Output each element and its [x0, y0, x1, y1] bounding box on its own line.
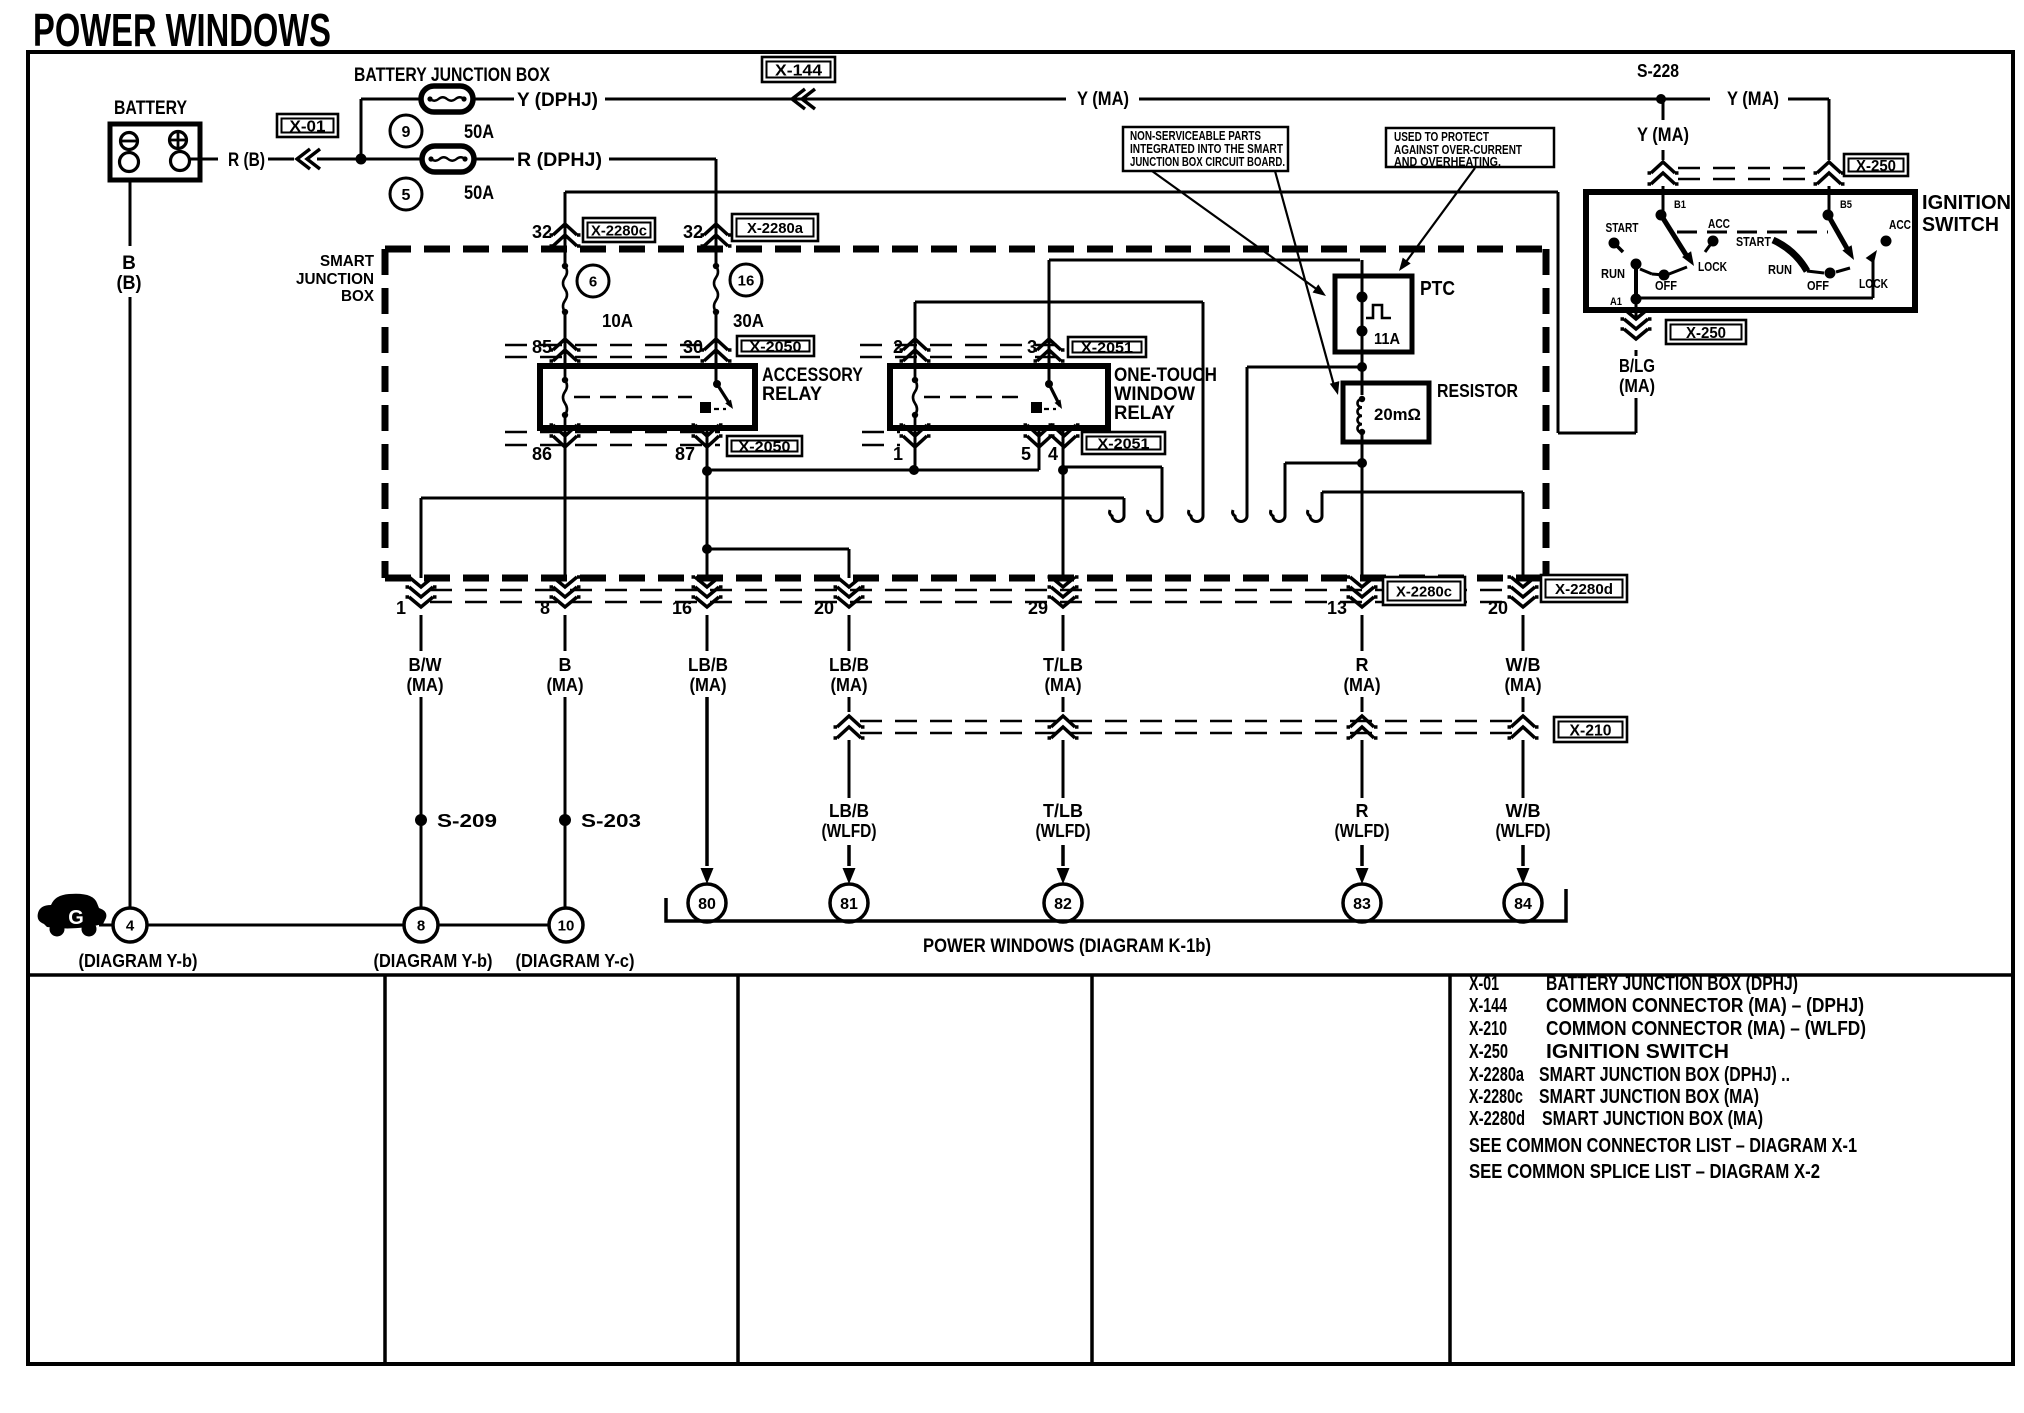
svg-text:X-144: X-144	[1469, 995, 1508, 1017]
svg-text:6: 6	[589, 273, 597, 290]
svg-text:X-250: X-250	[1686, 325, 1726, 342]
svg-text:13: 13	[1327, 598, 1347, 618]
svg-text:R: R	[1356, 801, 1369, 821]
svg-text:10A: 10A	[602, 311, 633, 331]
svg-text:(MA): (MA)	[407, 675, 444, 695]
svg-text:X-2280d: X-2280d	[1555, 581, 1613, 598]
svg-text:3: 3	[1027, 337, 1037, 357]
svg-text:Y (MA): Y (MA)	[1727, 89, 1779, 110]
svg-text:(WLFD): (WLFD)	[822, 821, 877, 841]
svg-text:RUN: RUN	[1601, 266, 1625, 281]
svg-text:32: 32	[683, 222, 703, 242]
svg-text:JUNCTION BOX CIRCUIT BOARD.: JUNCTION BOX CIRCUIT BOARD.	[1130, 155, 1285, 169]
svg-text:(DIAGRAM Y-b): (DIAGRAM Y-b)	[374, 951, 493, 971]
svg-text:4: 4	[126, 917, 135, 934]
svg-text:X-144: X-144	[775, 62, 822, 79]
svg-text:B/LG: B/LG	[1619, 356, 1655, 376]
svg-text:(MA): (MA)	[1344, 675, 1381, 695]
svg-text:COMMON CONNECTOR (MA) – (WLFD): COMMON CONNECTOR (MA) – (WLFD)	[1546, 1018, 1866, 1040]
svg-text:86: 86	[532, 444, 552, 464]
svg-text:87: 87	[675, 444, 695, 464]
svg-text:POWER WINDOWS (DIAGRAM K-1b): POWER WINDOWS (DIAGRAM K-1b)	[923, 936, 1211, 957]
svg-text:84: 84	[1514, 896, 1532, 913]
svg-text:LB/B: LB/B	[688, 655, 728, 675]
svg-text:8: 8	[540, 598, 550, 618]
svg-text:1: 1	[396, 598, 406, 618]
svg-text:OFF: OFF	[1655, 278, 1677, 293]
svg-text:50A: 50A	[464, 183, 494, 204]
svg-text:JUNCTION: JUNCTION	[296, 271, 374, 288]
svg-text:81: 81	[840, 896, 858, 913]
svg-text:SMART JUNCTION BOX (DPHJ) ..: SMART JUNCTION BOX (DPHJ) ..	[1539, 1064, 1790, 1086]
svg-text:X-2280c: X-2280c	[1396, 583, 1452, 600]
svg-text:82: 82	[1054, 896, 1072, 913]
svg-text:X-210: X-210	[1469, 1018, 1507, 1040]
svg-text:X-2280d: X-2280d	[1469, 1108, 1525, 1130]
svg-text:11A: 11A	[1374, 331, 1400, 348]
svg-text:COMMON CONNECTOR (MA) – (DPHJ): COMMON CONNECTOR (MA) – (DPHJ)	[1546, 995, 1864, 1017]
svg-text:83: 83	[1353, 896, 1371, 913]
svg-text:LB/B: LB/B	[829, 801, 869, 821]
svg-text:G: G	[68, 907, 84, 929]
svg-text:8: 8	[417, 917, 425, 934]
svg-text:X-2051: X-2051	[1098, 435, 1150, 452]
svg-text:(MA): (MA)	[1505, 675, 1542, 695]
svg-text:RELAY: RELAY	[762, 384, 822, 405]
svg-text:(MA): (MA)	[1619, 376, 1655, 396]
svg-text:SMART: SMART	[320, 253, 374, 270]
svg-text:2: 2	[893, 337, 903, 357]
svg-text:WINDOW: WINDOW	[1114, 384, 1195, 405]
svg-text:X-250: X-250	[1856, 158, 1896, 175]
svg-text:50A: 50A	[464, 122, 494, 143]
svg-text:R (DPHJ): R (DPHJ)	[517, 150, 602, 171]
svg-text:X-01: X-01	[1469, 973, 1499, 995]
svg-text:20: 20	[814, 598, 834, 618]
svg-text:ACC: ACC	[1708, 216, 1730, 231]
svg-text:(DIAGRAM Y-b): (DIAGRAM Y-b)	[79, 951, 198, 971]
svg-text:IGNITION SWITCH: IGNITION SWITCH	[1546, 1041, 1729, 1063]
svg-text:SEE COMMON CONNECTOR LIST – D: SEE COMMON CONNECTOR LIST – DIAGRAM X-1	[1469, 1135, 1857, 1157]
svg-text:X-2280a: X-2280a	[747, 220, 804, 237]
svg-text:BOX: BOX	[341, 288, 374, 305]
svg-text:(MA): (MA)	[547, 675, 584, 695]
svg-text:BATTERY JUNCTION BOX: BATTERY JUNCTION BOX	[354, 65, 550, 86]
svg-text:W/B: W/B	[1506, 655, 1541, 675]
svg-text:(WLFD): (WLFD)	[1036, 821, 1091, 841]
svg-text:B5: B5	[1840, 199, 1852, 211]
svg-text:SMART JUNCTION BOX (MA): SMART JUNCTION BOX (MA)	[1539, 1086, 1759, 1108]
svg-text:INTEGRATED INTO THE SMART: INTEGRATED INTO THE SMART	[1130, 142, 1283, 156]
svg-text:POWER WINDOWS: POWER WINDOWS	[33, 4, 331, 56]
svg-text:LOCK: LOCK	[1698, 259, 1727, 274]
svg-text:START: START	[1736, 234, 1771, 249]
svg-text:20mΩ: 20mΩ	[1374, 405, 1421, 424]
svg-text:X-250: X-250	[1469, 1041, 1508, 1063]
svg-text:5: 5	[402, 187, 411, 204]
svg-text:B: B	[122, 253, 136, 274]
svg-text:B/W: B/W	[409, 655, 442, 675]
svg-text:X-2280c: X-2280c	[591, 222, 647, 239]
svg-text:S-203: S-203	[581, 811, 641, 831]
svg-text:85: 85	[532, 337, 552, 357]
svg-text:RUN: RUN	[1768, 262, 1792, 277]
svg-text:X-2280c: X-2280c	[1469, 1086, 1523, 1108]
svg-text:80: 80	[698, 896, 716, 913]
svg-text:5: 5	[1021, 444, 1031, 464]
svg-text:(WLFD): (WLFD)	[1335, 821, 1390, 841]
svg-text:B: B	[559, 655, 572, 675]
svg-text:AND OVERHEATING.: AND OVERHEATING.	[1394, 155, 1501, 169]
svg-text:16: 16	[738, 272, 755, 289]
svg-text:Y (MA): Y (MA)	[1637, 125, 1689, 146]
svg-text:START: START	[1606, 220, 1639, 235]
svg-text:R (B): R (B)	[228, 150, 265, 171]
svg-text:T/LB: T/LB	[1043, 655, 1083, 675]
svg-text:X-01: X-01	[290, 118, 326, 135]
svg-text:Y (DPHJ): Y (DPHJ)	[517, 90, 598, 111]
svg-text:X-2051: X-2051	[1081, 339, 1133, 356]
svg-text:X-2050: X-2050	[750, 338, 802, 355]
svg-text:IGNITION: IGNITION	[1922, 192, 2011, 214]
svg-text:ACCESSORY: ACCESSORY	[762, 365, 863, 386]
svg-text:BATTERY: BATTERY	[114, 98, 187, 119]
svg-text:32: 32	[532, 222, 552, 242]
svg-text:T/LB: T/LB	[1043, 801, 1083, 821]
svg-text:20: 20	[1488, 598, 1508, 618]
svg-text:(DIAGRAM Y-c): (DIAGRAM Y-c)	[516, 951, 635, 971]
svg-text:BATTERY JUNCTION BOX (DPHJ): BATTERY JUNCTION BOX (DPHJ)	[1546, 973, 1798, 995]
svg-text:NON-SERVICEABLE PARTS: NON-SERVICEABLE PARTS	[1130, 129, 1261, 143]
svg-text:A1: A1	[1610, 296, 1622, 308]
svg-text:29: 29	[1028, 598, 1048, 618]
svg-text:S-228: S-228	[1637, 61, 1679, 81]
svg-text:LB/B: LB/B	[829, 655, 869, 675]
svg-text:30A: 30A	[733, 311, 764, 331]
svg-text:W/B: W/B	[1506, 801, 1541, 821]
svg-text:(MA): (MA)	[690, 675, 727, 695]
svg-text:SWITCH: SWITCH	[1922, 214, 1999, 236]
svg-text:X-2280a: X-2280a	[1469, 1064, 1525, 1086]
svg-text:10: 10	[558, 917, 575, 934]
svg-text:PTC: PTC	[1420, 278, 1455, 300]
svg-text:X-2050: X-2050	[739, 438, 791, 455]
svg-text:4: 4	[1048, 444, 1058, 464]
svg-text:ACC: ACC	[1889, 217, 1911, 232]
svg-text:Y (MA): Y (MA)	[1077, 89, 1129, 110]
svg-text:LOCK: LOCK	[1859, 276, 1888, 291]
svg-text:(MA): (MA)	[1045, 675, 1082, 695]
svg-text:(MA): (MA)	[831, 675, 868, 695]
svg-text:RESISTOR: RESISTOR	[1437, 381, 1518, 401]
svg-text:16: 16	[672, 598, 692, 618]
svg-text:USED TO PROTECT: USED TO PROTECT	[1394, 130, 1489, 144]
svg-text:RELAY: RELAY	[1114, 403, 1175, 424]
svg-text:SEE COMMON SPLICE LIST – DIAG: SEE COMMON SPLICE LIST – DIAGRAM X-2	[1469, 1161, 1820, 1183]
svg-text:S-209: S-209	[437, 811, 497, 831]
svg-text:(WLFD): (WLFD)	[1496, 821, 1551, 841]
svg-text:(B): (B)	[117, 273, 142, 294]
svg-text:X-210: X-210	[1570, 722, 1612, 739]
svg-text:R: R	[1356, 655, 1369, 675]
svg-text:1: 1	[893, 444, 903, 464]
svg-text:9: 9	[402, 124, 411, 141]
svg-text:30: 30	[683, 337, 703, 357]
svg-text:OFF: OFF	[1807, 278, 1829, 293]
svg-text:B1: B1	[1674, 199, 1686, 211]
svg-text:SMART JUNCTION BOX (MA): SMART JUNCTION BOX (MA)	[1542, 1108, 1763, 1130]
